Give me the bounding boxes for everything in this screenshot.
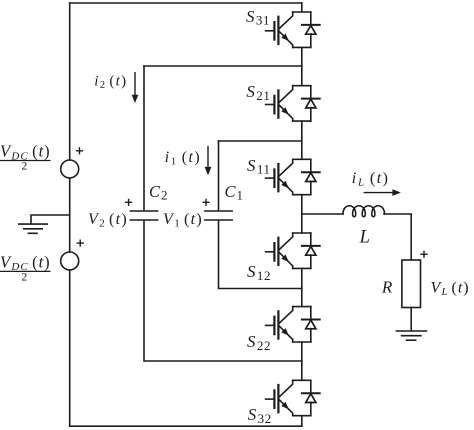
svg-text:V2(t): V2(t) (88, 211, 128, 230)
wire: node S31/S21 to C2 (144, 65, 302, 67)
transistor S11 (266, 159, 320, 194)
label + of upper source (76, 147, 83, 154)
label + of lower source (77, 240, 84, 247)
wire: top rail (70, 2, 302, 4)
wire: C2 upper leg (143, 66, 145, 210)
label + of C2 (125, 199, 132, 206)
current arrow i1 (205, 146, 212, 175)
svg-text:V1(t): V1(t) (163, 211, 203, 230)
transistor S31 (266, 12, 320, 47)
svg-text:2: 2 (22, 271, 28, 283)
label + of load (420, 251, 427, 258)
label VDC(t)/2 lower (0, 252, 51, 283)
svg-text:i2(t): i2(t) (94, 74, 127, 92)
current arrow iL (364, 189, 401, 196)
wire: resistor to ground (410, 308, 412, 331)
wire: C1 upper leg (218, 141, 220, 210)
wire: ground tap (31, 215, 70, 224)
voltage source VDC/2 upper (61, 160, 79, 178)
capacitor C1 (205, 211, 232, 220)
label VDC(t)/2 upper (0, 142, 51, 173)
wire: node S21/S11 to C1 (219, 140, 302, 142)
svg-text:L: L (359, 228, 370, 248)
wire: bottom rail (70, 425, 302, 427)
svg-text:i1(t): i1(t) (165, 149, 201, 168)
svg-text:R: R (381, 278, 393, 297)
wire: left rail between sources (69, 178, 71, 252)
current arrow i2 (132, 72, 139, 103)
resistor R (402, 260, 421, 308)
ground (left) (19, 224, 47, 233)
svg-text:iL(t): iL(t) (352, 170, 390, 189)
wire: inductor to resistor (384, 214, 411, 260)
svg-text:2: 2 (22, 161, 28, 173)
wire: switch rail segments (301, 3, 303, 426)
inductor L (343, 206, 385, 217)
wire: C1 lower leg (219, 221, 302, 289)
label + of C1 (202, 199, 209, 206)
capacitor C2 (130, 211, 157, 220)
wire: left rail lower (69, 270, 71, 426)
transistor S32 (266, 380, 320, 415)
transistor S12 (266, 233, 320, 268)
wire: left rail upper (69, 3, 71, 160)
voltage source VDC/2 lower (61, 252, 79, 270)
wire: output node to inductor (302, 213, 343, 215)
transistor S21 (266, 86, 320, 121)
ground (right) (396, 331, 426, 340)
wire: C2 lower leg (144, 221, 302, 361)
transistor S22 (266, 307, 320, 342)
